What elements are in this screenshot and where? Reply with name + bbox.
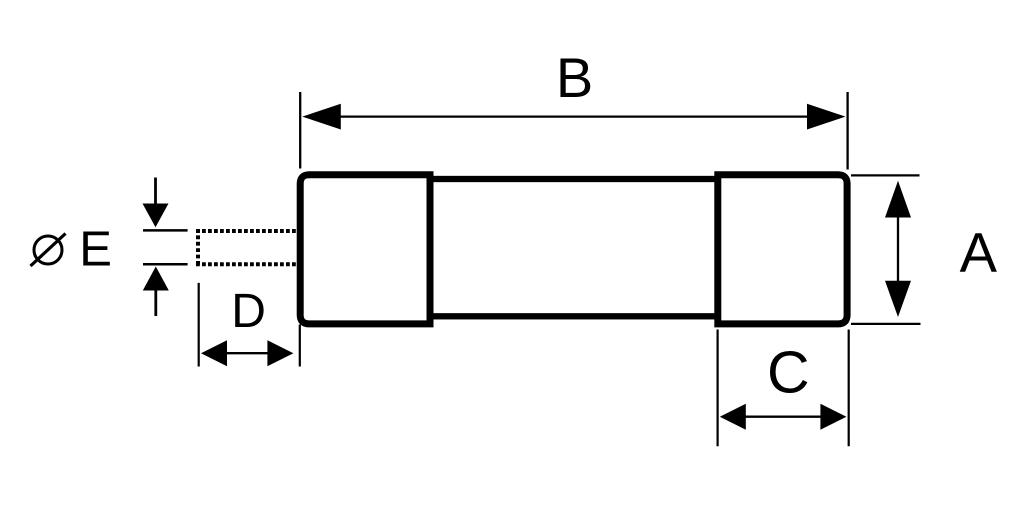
svg-text:D: D [231,285,266,338]
dimension E arrowhead up [143,267,169,291]
dimension D extension line right [299,325,301,367]
dimension D extension line left [198,283,200,367]
dimension C extension line right [848,330,850,447]
dimension C line [745,416,821,418]
dimension A line [897,216,899,282]
dimension B extension line right [846,92,848,170]
fuse left end cap [300,175,430,324]
fuse right end cap [718,175,847,324]
dimension E arrow up stem [154,290,157,316]
dimension E tick line top [143,229,188,232]
dimension A tick line top [851,174,920,176]
lead wire dotted outline top [196,229,299,233]
dimension D line [226,352,269,354]
dimension C arrowhead right [820,404,846,430]
diameter symbol slash [31,234,66,267]
svg-text:E: E [79,223,112,277]
dimension A tick line bottom [851,323,921,325]
svg-text:B: B [556,46,593,109]
svg-text:A: A [960,221,998,284]
dimension B arrowhead left [302,104,341,130]
dimension C extension line left [716,330,718,447]
dimension B line [338,115,810,117]
dimension E tick line bottom [143,263,188,266]
svg-text:C: C [767,340,810,406]
dimension B extension line left [299,92,301,169]
diameter symbol circle [34,236,62,264]
lead wire dotted outline bottom [196,262,299,266]
lead wire dotted outline left [196,229,200,266]
dimension D arrowhead right [267,340,293,366]
dimension A arrowhead up [885,181,911,218]
dimension D arrowhead left [201,340,227,366]
fuse central body [430,179,718,316]
dimension E arrowhead down [143,204,169,228]
dimension B arrowhead right [807,104,846,130]
dimension A arrowhead down [885,281,911,317]
dimension E arrow down stem [154,178,157,205]
dimension C arrowhead left [720,404,746,430]
